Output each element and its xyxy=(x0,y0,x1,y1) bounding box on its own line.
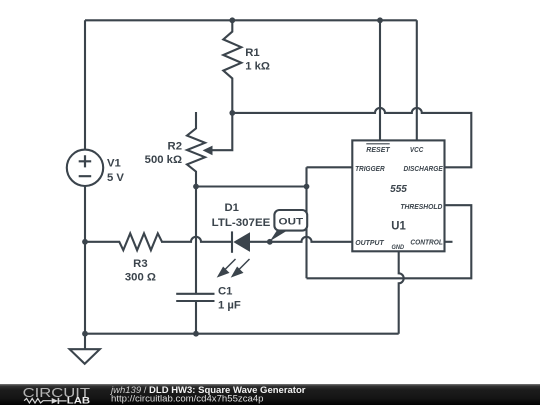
svg-text:5 V: 5 V xyxy=(107,172,124,184)
wire 555 GND pin to bottom rail (hop over threshold return) xyxy=(399,251,404,333)
svg-text:OUT: OUT xyxy=(279,216,304,227)
wire left rail upper xyxy=(84,20,86,149)
svg-text:C1: C1 xyxy=(218,286,232,298)
svg-text:OUTPUT: OUTPUT xyxy=(355,238,385,247)
svg-text:GND: GND xyxy=(392,244,405,251)
svg-text:CONTROL: CONTROL xyxy=(410,237,443,246)
LED D1 xyxy=(212,202,271,253)
wire left rail lower xyxy=(84,186,86,334)
IC U1 555 body xyxy=(352,140,444,251)
svg-text:R3: R3 xyxy=(133,258,147,270)
svg-text:1 kΩ: 1 kΩ xyxy=(245,61,270,73)
junction RESET top xyxy=(377,17,383,23)
potentiometer R2 xyxy=(145,112,233,187)
svg-text:555: 555 xyxy=(390,184,407,195)
net flag OUT xyxy=(270,210,307,241)
junction R3 left xyxy=(82,239,88,245)
footer bar xyxy=(0,384,540,406)
svg-text:VCC: VCC xyxy=(410,145,424,154)
junction R2 bottom xyxy=(193,184,199,190)
svg-text:1 µF: 1 µF xyxy=(218,300,241,312)
svg-text:300 Ω: 300 Ω xyxy=(125,272,156,284)
wire VCC pin to top rail xyxy=(416,20,418,140)
LED emission arrow 1 xyxy=(217,259,236,278)
svg-text:U1: U1 xyxy=(391,219,406,233)
resistor R3 xyxy=(85,233,162,283)
wire LED to 555 OUTPUT pin (hop over trigger vertical) xyxy=(250,237,352,242)
wire trigger-threshold vertical xyxy=(305,167,307,278)
wire CONTROL stub xyxy=(445,241,453,243)
svg-text:V1: V1 xyxy=(107,157,121,169)
svg-text:500 kΩ: 500 kΩ xyxy=(145,154,182,166)
logo resistor squiggle xyxy=(24,398,51,403)
wire bottom rail xyxy=(85,333,399,335)
wire R3 to LED (hop over C1 wire) xyxy=(161,237,232,242)
wire 555 TRIGGER pin xyxy=(307,166,353,168)
wire top rail xyxy=(85,19,417,21)
svg-text:RESET: RESET xyxy=(366,145,391,154)
wire R2 bottom to trigger node xyxy=(196,185,307,187)
svg-text:http://circuitlab.com/cd4x7h55: http://circuitlab.com/cd4x7h55zca4p xyxy=(111,393,264,404)
logo diode xyxy=(52,398,58,404)
junction trigger node xyxy=(304,184,310,190)
wire threshold return xyxy=(307,205,472,278)
svg-text:LTL-307EE: LTL-307EE xyxy=(212,217,271,229)
LED emission arrow 2 xyxy=(231,259,250,278)
svg-text:DISCHARGE: DISCHARGE xyxy=(404,164,444,173)
svg-text:THRESHOLD: THRESHOLD xyxy=(400,202,442,211)
junction R1 bottom xyxy=(229,110,235,116)
capacitor C1 xyxy=(176,187,241,334)
wire RESET pin to top rail xyxy=(379,20,381,140)
junction OUT node xyxy=(267,239,273,245)
junction bottom-left xyxy=(82,331,88,337)
svg-text:D1: D1 xyxy=(224,202,238,214)
svg-text:R2: R2 xyxy=(168,140,182,152)
resistor R1 xyxy=(223,20,270,113)
svg-text:R1: R1 xyxy=(245,47,259,59)
svg-text:TRIGGER: TRIGGER xyxy=(355,164,385,173)
wire discharge net with hops xyxy=(232,108,471,167)
voltage source V1 xyxy=(67,150,125,186)
junction C1 bottom xyxy=(193,331,199,337)
svg-text:LAB: LAB xyxy=(67,395,90,406)
ground xyxy=(70,334,100,364)
junction R1 top xyxy=(229,17,235,23)
